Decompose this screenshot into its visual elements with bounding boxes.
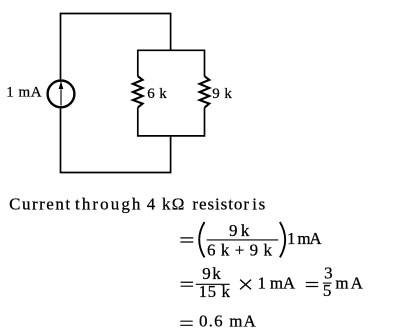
resistor 9k zigzag: [200, 76, 210, 107]
equals sign: [181, 282, 194, 286]
svg-text:3: 3: [324, 263, 333, 282]
current source arrow shaft: [60, 89, 62, 105]
svg-text:1 mA: 1 mA: [287, 229, 322, 248]
svg-text:6 k: 6 k: [147, 86, 167, 102]
big left paren: [199, 222, 204, 257]
svg-text:1 mA: 1 mA: [6, 84, 42, 100]
current source I1 circle: [48, 81, 75, 108]
equals sign: [180, 321, 192, 325]
wire outer loop: left side top + top side + right stub into box: [61, 14, 171, 80]
svg-text:9 k: 9 k: [202, 264, 221, 283]
svg-text:1 mA: 1 mA: [258, 273, 296, 292]
svg-text:through: through: [75, 195, 141, 214]
times sign: [240, 280, 251, 290]
svg-text:0.6: 0.6: [199, 311, 223, 330]
current source arrowhead: [59, 81, 64, 89]
svg-text:15 k: 15 k: [199, 282, 231, 301]
big right paren: [280, 222, 285, 257]
svg-text:mA: mA: [335, 273, 363, 292]
svg-text:4 kΩ: 4 kΩ: [147, 195, 185, 214]
resistor 6k zigzag: [133, 76, 143, 107]
svg-text:6 k + 9 k: 6 k + 9 k: [207, 240, 273, 259]
svg-text:resistor: resistor: [192, 195, 249, 214]
svg-text:Current: Current: [9, 195, 70, 214]
wire outer loop: left side bottom + bottom side + right stub out of box: [61, 109, 171, 173]
svg-text:mA: mA: [229, 311, 256, 330]
svg-text:5: 5: [323, 281, 332, 300]
svg-text:is: is: [252, 195, 265, 214]
fraction bar: [323, 282, 332, 284]
second equals sign: [306, 283, 318, 287]
svg-text:9 k: 9 k: [229, 221, 250, 240]
equals sign: [180, 238, 193, 242]
svg-text:9 k: 9 k: [212, 86, 232, 102]
wire inner box bottom rail with leads: [138, 108, 205, 136]
fraction bar: [207, 239, 279, 241]
wire inner box top rail with leads: [138, 50, 205, 76]
fraction bar: [196, 283, 230, 285]
